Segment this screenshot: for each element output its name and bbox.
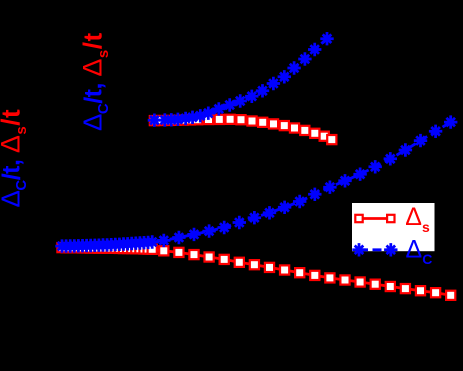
svg-text:ΔC/t, Δs/t: ΔC/t, Δs/t xyxy=(0,109,30,208)
svg-text:ΔC/t, Δs/t: ΔC/t, Δs/t xyxy=(78,32,112,131)
